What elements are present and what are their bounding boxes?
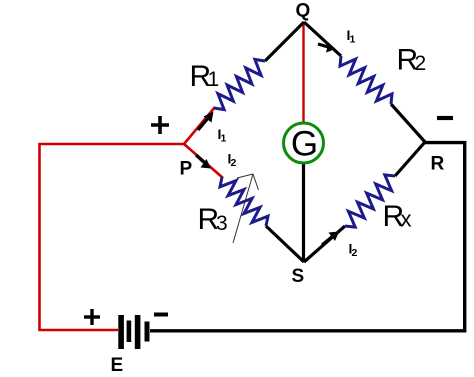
wire: black R2 to node R [391, 104, 425, 142]
svg-text:E: E [111, 355, 124, 376]
battery E plates [118, 315, 124, 349]
resistor Rx [345, 175, 395, 227]
wire: red from P down-right to R3 [184, 144, 223, 178]
svg-text:1: 1 [350, 34, 356, 46]
wire: black node R to Rx [395, 142, 425, 176]
current arrow I2 on S-Rx wire [322, 232, 339, 246]
wire: black R1 to Q [265, 22, 304, 61]
svg-text:P: P [180, 159, 193, 180]
svg-text:1: 1 [221, 133, 227, 145]
wire: black R3 to node S [266, 226, 304, 262]
current arrow I1 on P-R1 wire [198, 112, 214, 131]
svg-text:S: S [292, 266, 305, 287]
svg-text:2: 2 [352, 247, 358, 259]
wire: black from node R right, down, to battery - terminal [150, 143, 465, 331]
wire: black Q to R2 [304, 22, 341, 56]
current arrow I2 on P-R3 wire [196, 155, 211, 169]
minus sign near battery [154, 313, 168, 317]
wire: black node S to Rx [304, 226, 345, 262]
resistor R2 [340, 56, 392, 104]
svg-text:R: R [431, 154, 445, 175]
wire: black galvanometer to node S [302, 163, 305, 262]
svg-text:Q: Q [296, 1, 311, 22]
svg-text:3: 3 [216, 212, 228, 235]
svg-text:x: x [401, 207, 412, 232]
plus sign near P [151, 116, 169, 134]
resistor R1 [214, 59, 265, 109]
plus sign near battery [84, 309, 100, 325]
galvanometer G [284, 123, 324, 163]
resistor R3 [220, 177, 268, 226]
variable resistor arrow over R3 [233, 174, 259, 243]
svg-text:2: 2 [415, 52, 427, 75]
wire: red loop from node P left, down, to battery + terminal [40, 144, 185, 330]
svg-text:G: G [291, 125, 318, 164]
wire: red from node Q down to galvanometer [302, 23, 304, 123]
wire: red from P up-right to R1 [184, 107, 215, 144]
minus sign near R [437, 116, 453, 120]
svg-text:2: 2 [231, 157, 237, 169]
svg-text:1: 1 [208, 68, 220, 91]
current arrow I1 on Q-R2 wire [318, 43, 336, 53]
